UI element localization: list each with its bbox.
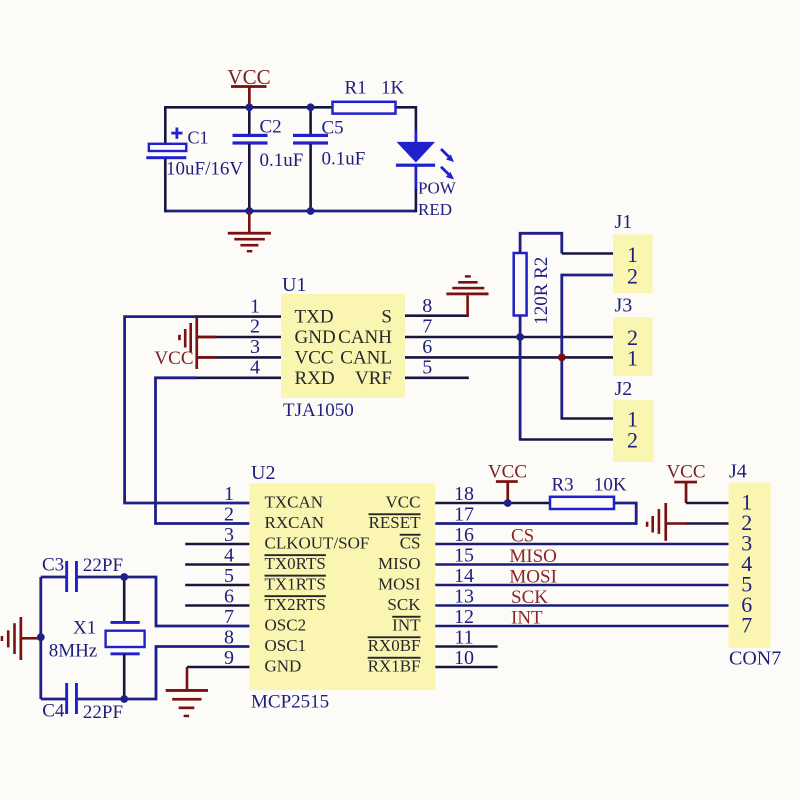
svg-text:POW: POW	[418, 179, 457, 198]
svg-text:VCC: VCC	[666, 462, 705, 483]
svg-text:10K: 10K	[594, 474, 627, 495]
svg-text:10uF/16V: 10uF/16V	[166, 159, 243, 180]
wire top rail right of R1	[395, 106, 416, 109]
svg-text:C3: C3	[42, 555, 64, 576]
svg-text:INT: INT	[511, 608, 543, 629]
svg-text:TX2RTS: TX2RTS	[265, 595, 326, 614]
svg-text:CON7: CON7	[729, 648, 781, 670]
svg-text:2: 2	[250, 316, 260, 338]
svg-text:0.1uF: 0.1uF	[260, 150, 304, 171]
svg-text:MOSI: MOSI	[509, 567, 557, 588]
wire U1 pin8 S	[405, 314, 469, 317]
ground at U2 pin9	[166, 667, 208, 717]
wire U2 pin3 stub	[185, 543, 249, 546]
wire R2 bottom lead	[519, 316, 522, 339]
svg-text:6: 6	[422, 336, 432, 358]
wire U1 pin2 GND stub	[196, 336, 281, 339]
svg-text:CANL: CANL	[340, 347, 392, 368]
capacitor C1	[146, 106, 243, 212]
net label MISO	[509, 546, 557, 567]
wire U2 pin8 OSC1 to crystal	[76, 647, 249, 700]
capacitor C4	[41, 683, 123, 723]
power VCC at R3	[488, 461, 527, 503]
svg-text:CANH: CANH	[338, 327, 392, 348]
svg-text:MISO: MISO	[378, 554, 421, 573]
svg-text:4: 4	[250, 357, 260, 379]
connector J2	[613, 378, 654, 462]
wire U2 pin5 stub	[185, 584, 249, 587]
svg-text:RX1BF: RX1BF	[368, 657, 421, 676]
IC U1 TJA1050 body	[281, 274, 405, 421]
wire top rail left	[165, 106, 333, 109]
wire U2 pin4 stub	[185, 563, 249, 566]
svg-text:3: 3	[250, 336, 260, 358]
capacitor C2	[233, 106, 304, 212]
IC U2 MCP2515 body	[249, 462, 435, 713]
wire SCK net U2 pin13 to J4 pin6	[435, 604, 728, 607]
svg-text:R1: R1	[345, 78, 367, 99]
svg-text:J2: J2	[615, 378, 633, 400]
svg-text:VCC: VCC	[488, 461, 527, 482]
ground at J4 pin2 (sideways)	[646, 503, 729, 541]
svg-text:OSC1: OSC1	[265, 636, 307, 655]
wire U1 pin1 TXD to U2 pin1 TXCAN	[125, 317, 281, 503]
net label INT	[511, 608, 543, 629]
svg-text:RESET: RESET	[369, 513, 422, 532]
svg-text:TX0RTS: TX0RTS	[265, 554, 326, 573]
wire bottom rail	[165, 210, 415, 213]
power VCC at J4	[666, 462, 728, 504]
wire J1 pin2 down to J2 pin1	[561, 275, 614, 419]
svg-text:VRF: VRF	[355, 368, 392, 389]
wire MOSI net U2 pin14 to J4 pin5	[435, 584, 728, 587]
resistor R1	[333, 78, 405, 114]
svg-text:U1: U1	[282, 274, 306, 296]
svg-text:VCC: VCC	[295, 347, 334, 368]
svg-text:VCC: VCC	[386, 493, 421, 512]
svg-text:C1: C1	[188, 128, 209, 148]
svg-text:RED: RED	[418, 200, 452, 219]
node junction CANH / R2	[516, 333, 524, 341]
node junction CANL (maroon)	[558, 354, 566, 362]
wire U2 pin11 stub	[435, 645, 497, 648]
wire CS net U2 pin16 to J4 pin3	[435, 543, 728, 546]
wire U2 pin9 GND	[187, 666, 249, 669]
wire U2 pin10 stub	[435, 666, 497, 669]
svg-text:SCK: SCK	[511, 587, 548, 608]
svg-text:C4: C4	[42, 701, 65, 722]
wire U1 pin4 RXD to U2 pin2 RXCAN	[156, 378, 282, 524]
svg-text:TJA1050: TJA1050	[283, 400, 354, 421]
wire INT net U2 pin12 to J4 pin7	[435, 625, 728, 628]
wire CANH net U1 pin7 to J3 pin2	[405, 336, 613, 339]
wire U1 pin3 VCC stub	[196, 356, 281, 359]
U1 pin numbers 8-5	[422, 295, 432, 379]
svg-text:OSC2: OSC2	[265, 616, 307, 635]
net label MOSI	[509, 567, 557, 588]
wire crystal left vertical	[39, 577, 42, 699]
svg-text:R3: R3	[552, 474, 574, 495]
svg-text:TX1RTS: TX1RTS	[265, 575, 326, 594]
svg-text:X1: X1	[73, 618, 96, 639]
ground left of crystal (sideways)	[1, 617, 41, 660]
svg-text:J4: J4	[729, 460, 747, 482]
svg-text:GND: GND	[295, 327, 336, 348]
svg-text:22PF: 22PF	[83, 555, 123, 576]
wire U1 pin5 VRF stub	[405, 376, 469, 379]
wire CANH branch down to J2 pin2	[519, 337, 613, 440]
power VCC top	[227, 65, 270, 108]
ground at U1 pin8 (inverted)	[446, 275, 488, 317]
net label CS	[511, 526, 534, 547]
node junction dots crystal	[37, 573, 128, 703]
svg-text:8MHz: 8MHz	[49, 641, 98, 662]
svg-text:MOSI: MOSI	[378, 575, 421, 594]
wire R2 top to J1 pin1	[520, 233, 613, 253]
svg-text:1K: 1K	[381, 78, 405, 99]
svg-text:S: S	[381, 307, 392, 328]
svg-text:0.1uF: 0.1uF	[322, 149, 366, 170]
svg-text:CLKOUT/SOF: CLKOUT/SOF	[265, 534, 370, 553]
wire MISO net U2 pin15 to J4 pin4	[435, 563, 728, 566]
svg-text:120R R2: 120R R2	[531, 257, 552, 325]
svg-text:RX0BF: RX0BF	[368, 636, 421, 655]
svg-text:2: 2	[224, 504, 234, 526]
svg-text:INT: INT	[392, 616, 421, 635]
resistor R2 120R	[514, 253, 552, 325]
svg-text:U2: U2	[251, 462, 275, 484]
wire U2 pin7 OSC2 to crystal	[76, 577, 249, 626]
svg-text:1: 1	[224, 483, 234, 505]
svg-text:J3: J3	[615, 295, 633, 317]
LED POW RED	[396, 106, 457, 219]
ground top section	[228, 211, 271, 252]
svg-text:1: 1	[250, 295, 260, 317]
wire R3 right to U2 pin17 RESET	[435, 503, 636, 524]
svg-text:5: 5	[422, 357, 432, 379]
svg-text:RXCAN: RXCAN	[265, 513, 325, 532]
node junction dots top section	[245, 103, 314, 215]
wire U2 pin6 stub	[185, 604, 249, 607]
svg-text:RXD: RXD	[295, 368, 335, 389]
crystal X1 8MHz	[49, 577, 145, 699]
svg-text:CS: CS	[400, 534, 421, 553]
wire CANL net U1 pin6 to J3 pin1	[405, 356, 613, 359]
svg-text:C2: C2	[260, 117, 282, 138]
resistor R3 10K	[550, 474, 627, 509]
svg-text:22PF: 22PF	[83, 702, 123, 723]
svg-text:8: 8	[422, 295, 432, 317]
svg-text:7: 7	[422, 316, 432, 338]
svg-text:2: 2	[627, 428, 638, 453]
capacitor C5	[293, 106, 365, 212]
connector J3	[613, 295, 653, 376]
svg-text:2: 2	[627, 264, 638, 289]
svg-text:GND: GND	[265, 657, 302, 676]
connector J1	[613, 211, 653, 293]
U2 pin numbers 1-9	[224, 483, 234, 669]
svg-text:VCC: VCC	[154, 348, 193, 369]
svg-text:CS: CS	[511, 526, 534, 547]
svg-text:7: 7	[741, 613, 752, 638]
connector J4 CON7	[729, 460, 782, 669]
wire U2 pin18 VCC	[435, 502, 550, 505]
svg-text:MCP2515: MCP2515	[251, 692, 329, 713]
net label SCK	[511, 587, 548, 608]
capacitor C3	[41, 555, 123, 593]
svg-text:TXD: TXD	[295, 307, 334, 328]
U2 pin numbers 18-10	[454, 483, 474, 669]
power VCC left of U1 (sideways bars)	[154, 317, 216, 369]
svg-text:SCK: SCK	[387, 595, 421, 614]
svg-text:J1: J1	[615, 211, 633, 233]
U1 pin numbers 1-4	[250, 295, 260, 378]
svg-text:1: 1	[627, 345, 638, 370]
svg-text:C5: C5	[322, 118, 344, 139]
node junction VCC/R3	[504, 499, 512, 507]
svg-text:TXCAN: TXCAN	[265, 493, 324, 512]
svg-text:MISO: MISO	[509, 546, 557, 567]
